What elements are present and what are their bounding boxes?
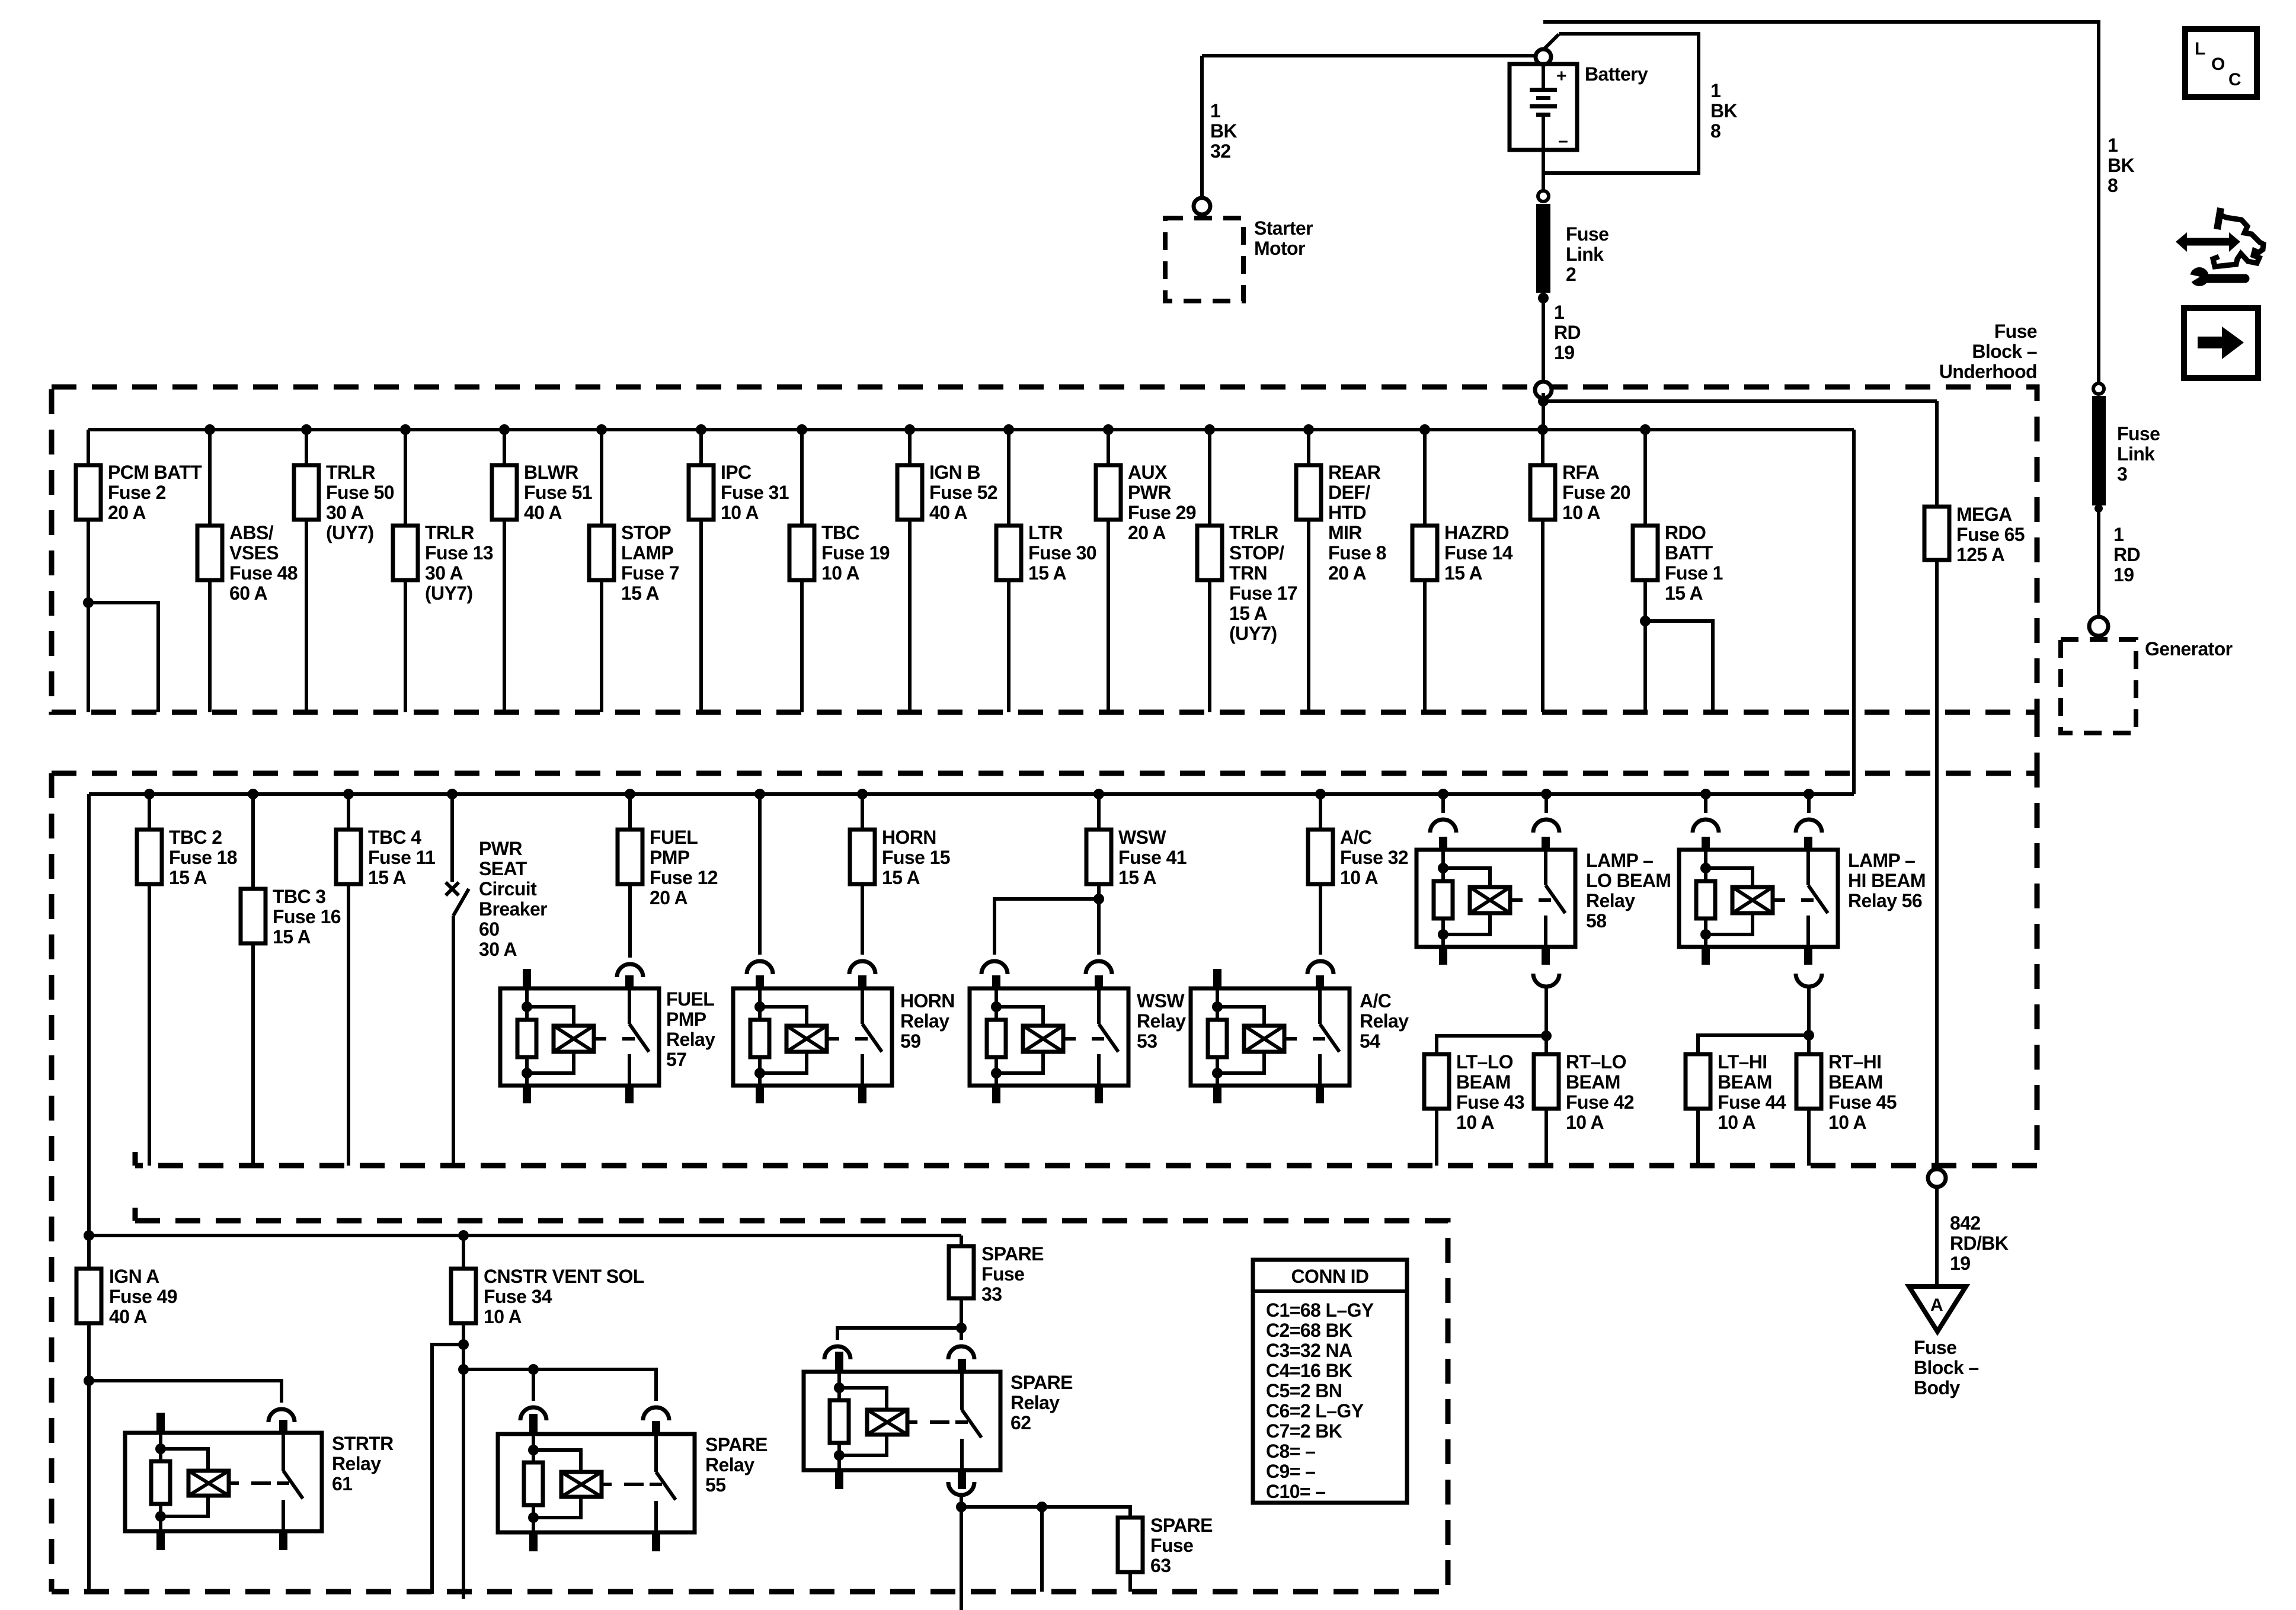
fuse LT-LO BEAM 43 <box>1424 1051 1524 1166</box>
wire fuse link 2 to fuse block <box>1542 298 1545 382</box>
icon arrow box <box>2184 308 2258 378</box>
svg-text:O: O <box>2211 55 2225 74</box>
relay LAMP HI BEAM 56 <box>1679 837 1926 965</box>
fuse SPARE 33 <box>949 1243 1044 1328</box>
label Fuse Block - Body <box>1914 1337 1979 1398</box>
junction below fuse 34 <box>458 1339 469 1350</box>
fuse AUX fuse with wire <box>1096 424 1196 712</box>
relay HORN 59 <box>733 975 955 1103</box>
relay WSW 53 <box>970 975 1186 1103</box>
wire fuse 34 jog left <box>432 1345 463 1594</box>
junction SPARE relay feed <box>458 1364 469 1375</box>
fuse ABS/ fuse with wire <box>197 424 298 712</box>
label Fuse Link 3 <box>2117 423 2160 485</box>
fuse RDO fuse with wire <box>1633 424 1723 712</box>
fuse block underhood lower (dashed border) <box>52 712 2037 1592</box>
svg-text:CONN ID: CONN ID <box>1291 1266 1369 1287</box>
fuse BLWR fuse 51 with wire <box>492 424 592 712</box>
connector arc SPARE 62 coil <box>824 1346 850 1359</box>
label Fuse Link 2 <box>1566 223 1609 285</box>
svg-text:C: C <box>2228 70 2241 89</box>
label 1 RD 19 (fuse link 2) <box>1554 302 1581 363</box>
wire 1 BK 8 loop <box>1543 34 1699 191</box>
wire LAMP HI switch to beam fuses <box>1807 985 1811 1054</box>
fuse PCM BATT fuse 2 with wire <box>76 430 202 712</box>
fuse link 2 terminal <box>1538 191 1549 201</box>
connector arc LAMP LO switch <box>1533 820 1559 833</box>
node A triangle (to fuse block body) <box>1909 1286 1966 1331</box>
label Generator <box>2145 638 2233 660</box>
wire to LT-LO BEAM fuse <box>1437 1036 1546 1054</box>
wire LAMP HI relay switch <box>1803 789 1814 813</box>
fuse IPC fuse 31 with wire <box>689 424 789 712</box>
connector arc A/C relay switch <box>1307 961 1334 974</box>
fuse IGN B fuse 52 with wire <box>897 424 997 712</box>
wire LAMP HI relay coil <box>1700 789 1711 813</box>
fuse block underhood bottom (dashed border) <box>52 1208 1448 1592</box>
bus1 <box>88 428 1854 431</box>
junction LO beam fuses <box>1541 1030 1552 1041</box>
fuse A/C 32 with wire <box>1308 789 1408 955</box>
wire fuse link 3 to generator <box>2097 508 2100 617</box>
connector arc SPARE 62 switch <box>948 1346 974 1359</box>
wire starter motor drop <box>1200 56 1204 197</box>
fuse HORN 15 with wire <box>850 789 950 955</box>
svg-text:A: A <box>1930 1295 1943 1315</box>
fuse TBC 2 with wire <box>137 789 237 1166</box>
connector arc SPARE 55 switch <box>643 1407 669 1420</box>
wire battery to fuse link 3 (top) <box>1543 22 2099 384</box>
connector arc below LAMP HI switch <box>1796 974 1822 987</box>
relay A/C 54 <box>1191 969 1409 1103</box>
fuse TRLR fuse 13 with wire <box>393 424 493 712</box>
junction below fuse 33 <box>956 1323 967 1333</box>
junction HI beam fuses <box>1803 1030 1814 1041</box>
fuse LTR fuse 30 with wire <box>996 424 1096 712</box>
relay STRTR 61 <box>125 1413 394 1550</box>
wire to SPARE relay 55 pins <box>463 1369 656 1401</box>
fuse TBC fuse 19 with wire <box>789 424 890 712</box>
junction bus1/battery feed <box>1538 396 1549 406</box>
relay LAMP LO BEAM 58 <box>1416 837 1671 965</box>
wire to SPARE fuse 63 <box>961 1507 1130 1518</box>
label 1 BK 8 (battery) <box>1710 80 1738 142</box>
WSW feed jog to relay coil <box>994 894 1104 955</box>
bus1 feed wire <box>1542 393 1545 430</box>
fuse CNSTR VENT SOL 34 with wire <box>451 1230 644 1345</box>
junction SPARE 63 branch <box>1037 1502 1047 1512</box>
label 1 BK 8 (right wire) <box>2108 135 2135 196</box>
fuse RT-LO BEAM 42 <box>1534 1051 1634 1166</box>
label Battery <box>1585 63 1648 85</box>
svg-text:Battery: Battery <box>1585 63 1648 85</box>
wire bus1 to bus2 (right feed) <box>1852 430 1856 794</box>
svg-text:+: + <box>1556 66 1566 86</box>
fuse block underhood (dashed border) <box>52 387 2037 712</box>
fuse link 3 terminal <box>2093 383 2104 394</box>
label 1 BK 32 <box>1210 100 1237 162</box>
wire SPARE 63 branch down <box>1040 1507 1044 1592</box>
wire battery diagonal <box>1543 34 1559 50</box>
connector arc HORN relay switch <box>849 961 875 974</box>
junction SPARE 55 coil <box>528 1364 539 1375</box>
junction bus3 left <box>84 1230 94 1241</box>
wire 842 RD/BK <box>1935 1187 1939 1287</box>
fuse link 2 <box>1536 204 1550 293</box>
fuse IGN A 49 <box>76 1266 177 1327</box>
wire LAMP LO relay switch <box>1541 789 1552 813</box>
wire LAMP LO relay coil <box>1438 789 1448 813</box>
fuse MEGA 65 <box>1924 504 2025 565</box>
battery positive terminal <box>1536 49 1551 65</box>
connector arc HORN relay coil <box>747 961 773 974</box>
fuse RT-HI BEAM 45 <box>1796 1051 1897 1166</box>
fuse FUEL PMP 12 with wire <box>618 789 718 958</box>
svg-text:Generator: Generator <box>2145 638 2233 660</box>
fuse WSW 41 with wire <box>1086 789 1187 955</box>
fuse HAZRD fuse 14 with wire <box>1412 424 1513 712</box>
fuse link 3 <box>2092 396 2106 505</box>
circuit breaker PWR SEAT 60 <box>446 789 547 1166</box>
icon vehicle with wrench <box>2176 208 2263 286</box>
wire bus3 to SPARE fuse 33 <box>960 1235 963 1246</box>
wire to LT-HI BEAM fuse <box>1698 1035 1809 1054</box>
label 842 RD/BK 19 <box>1950 1212 2009 1274</box>
junction below fuse link 2 <box>1538 293 1549 303</box>
fuse LT-HI BEAM 44 <box>1686 1051 1786 1166</box>
CONN ID table <box>1253 1260 1407 1503</box>
connector arc WSW relay coil <box>981 961 1008 974</box>
wire LAMP LO switch to beam fuses <box>1544 985 1548 1054</box>
connector arc below SPARE 62 switch <box>948 1482 974 1495</box>
wire to MEGA fuse <box>1543 399 1937 403</box>
wire IGN A to STRTR relay switch <box>89 1381 282 1403</box>
connector circle at underhood border <box>1535 382 1552 398</box>
fuse TRLR fuse 50 with wire <box>294 424 394 712</box>
wire SPARE 62 switch down <box>960 1494 963 1610</box>
connector arc FUEL PMP relay switch <box>617 964 643 977</box>
icon LOC box <box>2185 29 2257 97</box>
fuse RFA fuse 20 with wire <box>1530 424 1630 712</box>
fuse STOP fuse with wire <box>589 424 679 712</box>
wire fuse 33 to SPARE relay 62 coil <box>837 1328 961 1340</box>
MEGA fuse feed wire <box>1935 401 1939 1169</box>
wire fuse 34 down <box>462 1345 465 1599</box>
fuse TRLR fuse with wire <box>1197 424 1297 712</box>
label 1 RD 19 (generator wire) <box>2113 524 2140 585</box>
label Fuse Block - Underhood <box>1939 321 2037 382</box>
svg-text:L: L <box>2195 39 2205 59</box>
fuse SPARE 63 <box>1118 1515 1213 1592</box>
connector arc LAMP HI switch <box>1796 820 1822 833</box>
label Starter Motor <box>1254 217 1313 259</box>
fuse REAR fuse with wire <box>1296 424 1386 712</box>
svg-text:–: – <box>1558 131 1568 151</box>
relay FUEL PMP 57 <box>500 969 715 1103</box>
wire SPARE 55 coil drop <box>532 1369 535 1401</box>
junction below fuse link 3 <box>2094 504 2103 513</box>
bus3 <box>89 1234 961 1237</box>
starter motor (dashed box) <box>1165 218 1243 301</box>
connector arc STRTR switch <box>268 1409 295 1422</box>
connector arc SPARE 55 coil <box>520 1407 546 1420</box>
starter motor terminal <box>1194 198 1210 215</box>
wire HORN relay coil <box>754 789 765 955</box>
connector circle fuse block body <box>1928 1169 1946 1187</box>
wire fuse 33 to SPARE relay 62 switch <box>960 1328 963 1340</box>
fuse TBC 4 with wire <box>336 789 435 1166</box>
connector arc LAMP HI coil <box>1693 820 1719 833</box>
svg-text:StarterMotor: StarterMotor <box>1254 217 1313 259</box>
junction below SPARE 62 <box>956 1502 967 1512</box>
relay SPARE 55 <box>498 1414 768 1551</box>
relay SPARE 62 <box>804 1352 1073 1489</box>
connector arc LAMP LO coil <box>1430 820 1456 833</box>
RDO BATT branch jog <box>1640 616 1713 712</box>
bus2 <box>89 792 1854 796</box>
svg-text:LAMP –HI BEAMRelay 56: LAMP –HI BEAMRelay 56 <box>1848 850 1926 911</box>
battery B1 <box>1510 64 1577 151</box>
wire battery positive to starter motor <box>1202 54 1539 57</box>
connector arc WSW relay switch <box>1086 961 1112 974</box>
left feed wire (bus2 to bus3) <box>87 794 91 1592</box>
generator (dashed box) <box>2061 639 2136 733</box>
junction IGN A branch <box>84 1375 94 1386</box>
fuse TBC 3 with wire <box>241 789 341 1166</box>
PCM BATT branch jog <box>83 597 158 712</box>
generator terminal <box>2089 617 2108 636</box>
connector arc below LAMP LO switch <box>1533 974 1559 987</box>
